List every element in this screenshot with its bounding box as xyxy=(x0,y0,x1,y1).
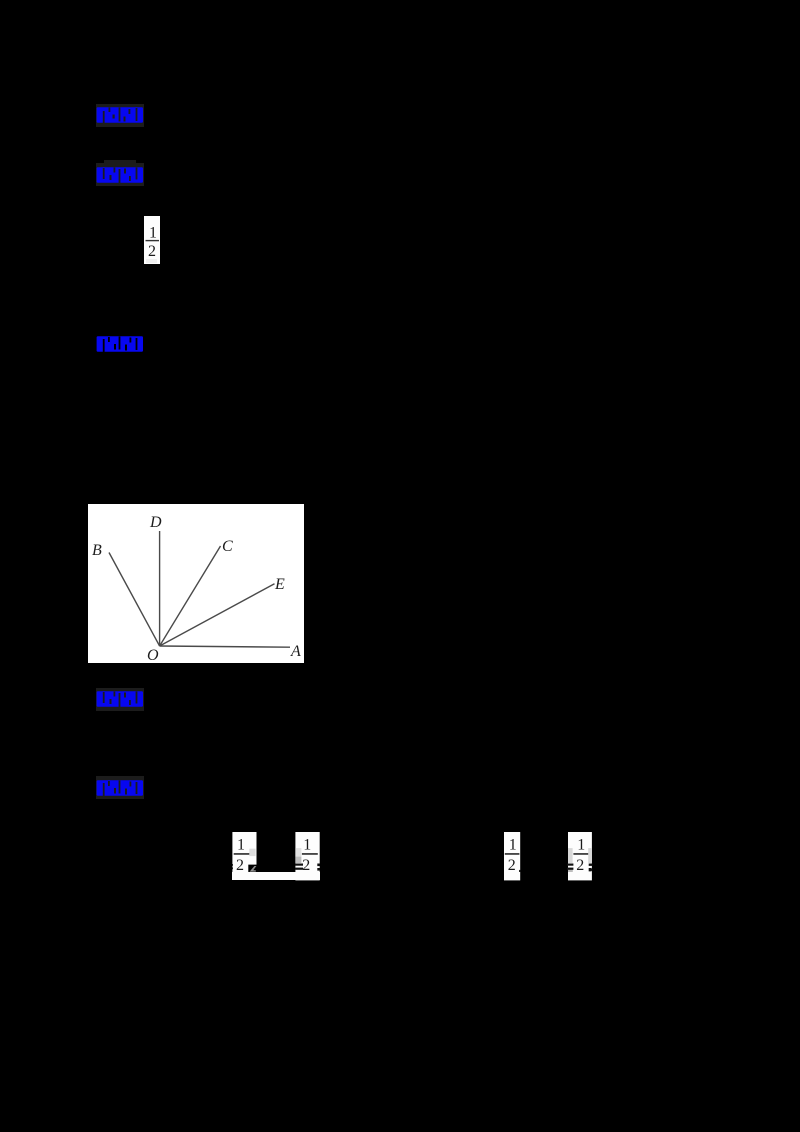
tag 分析 blue text 1 xyxy=(96,106,144,124)
tag 解答 blue text 4 xyxy=(96,690,144,708)
svg-text:1: 1 xyxy=(149,224,157,241)
arrow mark right edge xyxy=(589,863,593,865)
fraction image 1/2 (first) xyxy=(144,216,160,264)
equals sign peeking left xyxy=(567,863,573,865)
svg-text:D: D xyxy=(149,514,162,531)
equals sign peeking left xyxy=(295,863,303,865)
svg-text:2: 2 xyxy=(236,857,244,873)
equation pair 2 right: white box with fraction xyxy=(567,832,593,881)
ray OD xyxy=(159,531,161,646)
ray OB xyxy=(109,552,160,646)
svg-text:2: 2 xyxy=(302,857,310,874)
tag 点评 highlight box 5 xyxy=(96,776,144,799)
svg-text:B: B xyxy=(92,542,102,559)
equation pair 1: bottom white strip xyxy=(232,872,320,880)
equation pair 2 left: white box with fraction xyxy=(504,832,521,881)
equation pair 1 right: white box with fraction xyxy=(295,832,320,881)
tag 解答 blue text 2 xyxy=(96,166,144,184)
tag 点评 blue text 3 (no highlight) xyxy=(96,335,144,353)
ray OE xyxy=(160,583,275,645)
svg-text:2: 2 xyxy=(148,243,156,260)
equation pair 1 left: white box with fraction, notched bottom-right xyxy=(232,832,257,873)
geometry diagram rays xyxy=(88,504,304,663)
angle mark in notch xyxy=(249,866,256,872)
svg-text:2: 2 xyxy=(576,857,584,874)
tag 解答 highlight box 4 xyxy=(96,688,144,711)
highlight remnant above tag 2 xyxy=(104,160,136,167)
colon marks right edge xyxy=(318,863,321,866)
svg-text:1: 1 xyxy=(509,836,517,853)
ray OC xyxy=(160,546,221,646)
svg-text:1: 1 xyxy=(237,836,245,853)
figure white box xyxy=(88,504,304,663)
svg-text:C: C xyxy=(222,538,233,555)
svg-text:1: 1 xyxy=(303,836,311,853)
svg-text:2: 2 xyxy=(508,857,516,874)
svg-text:O: O xyxy=(147,647,159,663)
svg-text:E: E xyxy=(274,576,285,593)
ray OA xyxy=(160,646,290,647)
svg-text:1: 1 xyxy=(577,836,585,853)
svg-text:A: A xyxy=(290,643,301,660)
tag 点评 blue text 5 xyxy=(96,779,144,797)
tag 解答 highlight box 2 xyxy=(96,163,144,186)
tag 分析 highlight box 1 xyxy=(96,104,144,127)
